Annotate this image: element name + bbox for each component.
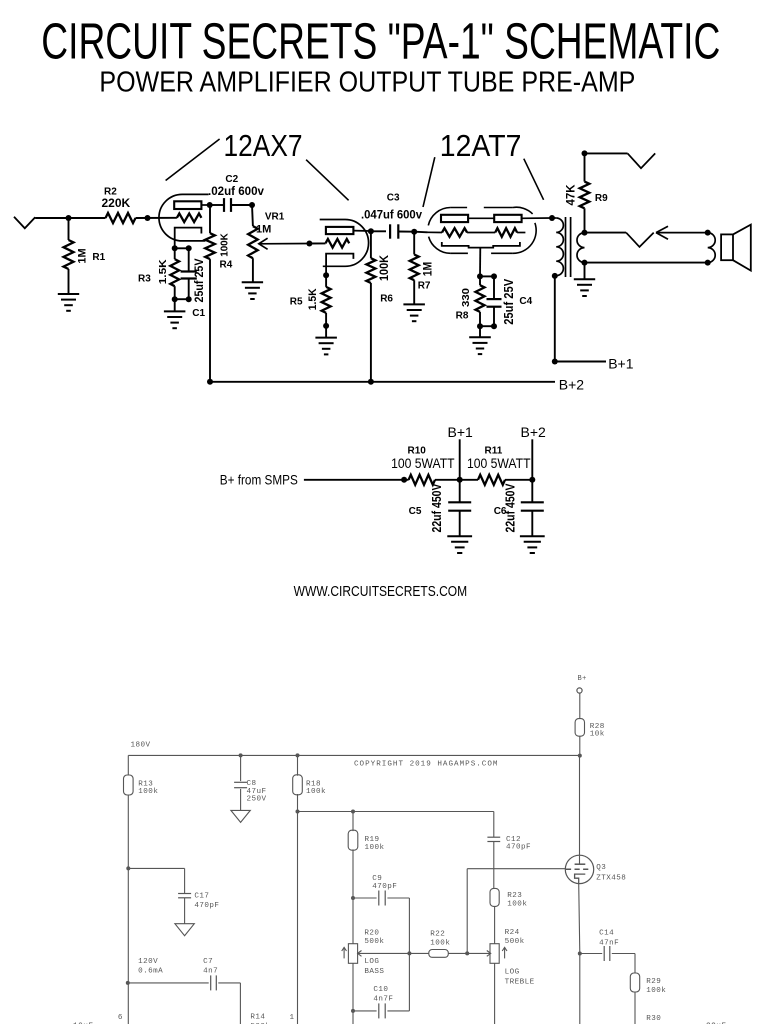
- ground for R8 C4: [469, 336, 491, 338]
- svg-text:LOG: LOG: [364, 958, 379, 966]
- output transformer core: [565, 217, 567, 277]
- svg-text:.02uf 600v: .02uf 600v: [208, 186, 265, 198]
- node cathode junction: [477, 273, 483, 279]
- jack contact speaker with arrow: [585, 232, 627, 234]
- node R19 rail2: [351, 810, 355, 814]
- svg-text:470pF: 470pF: [372, 883, 397, 891]
- svg-text:R9: R9: [595, 193, 608, 204]
- svg-text:Q3: Q3: [596, 864, 606, 872]
- ground for R3 C1: [164, 310, 186, 312]
- tube V1B cathode: [326, 254, 353, 276]
- resistor R10: [409, 475, 435, 485]
- jack contact top: [585, 152, 628, 154]
- capacitor C4: [493, 276, 495, 299]
- node secondary top: [582, 230, 588, 236]
- svg-text:1.5K: 1.5K: [157, 259, 169, 284]
- node grid V1A: [145, 215, 151, 221]
- wire primary bottom to B+1: [554, 276, 556, 362]
- svg-text:4n7: 4n7: [203, 967, 218, 975]
- node B+1 psu: [457, 477, 463, 483]
- node C7: [126, 981, 130, 985]
- arrow ground C8: [231, 810, 250, 822]
- svg-text:100k: 100k: [365, 844, 385, 852]
- svg-text:.047uf 600v: .047uf 600v: [361, 209, 423, 221]
- svg-text:6: 6: [118, 1014, 123, 1022]
- node cathode V1A top row: [172, 245, 178, 251]
- tube V1B grid zigzag: [326, 239, 350, 248]
- tube V1A cathode: [175, 228, 202, 249]
- svg-text:C5: C5: [409, 506, 422, 517]
- node R18 rail: [296, 753, 300, 757]
- node cathode bottom row: [172, 296, 178, 302]
- svg-text:R29: R29: [646, 978, 661, 986]
- svg-text:B+2: B+2: [521, 424, 547, 440]
- svg-text:250V: 250V: [247, 796, 267, 804]
- potentiometer R20 LOG BASS: [348, 944, 357, 964]
- tube V2 plate B: [494, 215, 521, 222]
- capacitor C3: [371, 230, 386, 232]
- resistor R6: [370, 231, 372, 258]
- ground for OT secondary: [574, 278, 595, 280]
- svg-text:1M: 1M: [77, 248, 89, 263]
- tube V1A envelope: [159, 194, 209, 241]
- B+2 terminal: [531, 439, 533, 480]
- svg-text:C2: C2: [225, 174, 238, 185]
- capacitor C17 branch: [128, 867, 184, 869]
- svg-text:1M: 1M: [256, 224, 271, 236]
- svg-text:120V: 120V: [138, 958, 158, 966]
- wire R22 to R24: [448, 952, 491, 954]
- pointer line 12AX7 left: [166, 139, 220, 181]
- pointer line 12AT7 left: [423, 157, 435, 207]
- svg-text:100 5WATT: 100 5WATT: [467, 456, 531, 471]
- svg-text:1.5K: 1.5K: [307, 288, 319, 310]
- svg-text:10k: 10k: [590, 731, 605, 739]
- svg-text:ZTX458: ZTX458: [596, 874, 626, 882]
- svg-text:COPYRIGHT 2019 HAGAMPS.COM: COPYRIGHT 2019 HAGAMPS.COM: [354, 760, 498, 768]
- speaker voice coil: [708, 233, 716, 263]
- svg-text:100k: 100k: [430, 939, 450, 947]
- resistor R4: [209, 205, 211, 233]
- wire base to Q3: [466, 869, 468, 954]
- svg-text:WWW.CIRCUITSECRETS.COM: WWW.CIRCUITSECRETS.COM: [294, 584, 468, 600]
- resistor R29: [630, 973, 639, 992]
- output transformer primary: [552, 217, 556, 219]
- wire SMPS feed: [304, 479, 409, 481]
- wire plate A to plate B: [468, 217, 494, 219]
- tube V2 plate A: [441, 215, 468, 222]
- resistor R3: [174, 248, 176, 259]
- node C9 junction: [351, 896, 355, 900]
- capacitor C12: [493, 812, 495, 838]
- B+1 rail: [552, 359, 558, 365]
- output transformer secondary: [577, 233, 585, 263]
- svg-text:25uf 25V: 25uf 25V: [502, 278, 516, 325]
- resistor R23: [490, 888, 499, 906]
- node OT primary bottom: [552, 273, 558, 279]
- B+2 rail: [210, 381, 555, 383]
- tube V1A plate: [174, 201, 201, 209]
- resistor R8: [479, 276, 481, 285]
- ground for R1: [58, 293, 79, 295]
- svg-text:100k: 100k: [306, 788, 326, 796]
- wire R20 wiper to R22: [358, 952, 429, 954]
- svg-text:C4: C4: [519, 296, 532, 307]
- resistor R18: [297, 755, 299, 775]
- tube V1B plate: [326, 227, 354, 234]
- tube V1A grid zigzag: [177, 214, 202, 223]
- svg-text:0.6mA: 0.6mA: [138, 967, 163, 975]
- pointer line 12AT7 right: [524, 159, 544, 200]
- svg-text:R1: R1: [92, 252, 105, 263]
- capacitor C2: [210, 204, 224, 206]
- node C8 rail: [239, 753, 243, 757]
- svg-text:470pF: 470pF: [194, 902, 219, 910]
- node B+2 psu: [529, 477, 535, 483]
- svg-text:C17: C17: [194, 893, 209, 901]
- svg-text:B+1: B+1: [608, 355, 634, 371]
- node plate V1A: [207, 202, 213, 208]
- svg-text:C7: C7: [203, 958, 213, 966]
- resistor R28: [575, 719, 584, 737]
- capacitor C8: [240, 755, 242, 781]
- svg-text:TREBLE: TREBLE: [505, 978, 535, 986]
- svg-text:500k: 500k: [364, 938, 384, 946]
- svg-text:330: 330: [460, 288, 472, 307]
- node plate V1B: [368, 228, 374, 234]
- potentiometer VR1: [251, 205, 254, 226]
- resistor R22: [429, 950, 449, 958]
- arrow ground C17: [175, 924, 194, 936]
- svg-text:B+2: B+2: [559, 376, 585, 392]
- capacitor C9 branch: [353, 897, 377, 899]
- wire C10 branch: [351, 1009, 355, 1013]
- tube V2 cathodes: [442, 242, 520, 248]
- capacitor C5: [459, 480, 461, 503]
- svg-text:4n7F: 4n7F: [373, 996, 393, 1004]
- B+ terminal: [577, 688, 582, 693]
- ground for R7: [403, 303, 425, 305]
- wire secondary bottom to speaker: [585, 262, 708, 264]
- node plate to OT primary: [549, 215, 555, 221]
- svg-text:CIRCUIT SECRETS "PA-1" SCHEMAT: CIRCUIT SECRETS "PA-1" SCHEMATIC: [41, 13, 720, 70]
- node C3 right: [411, 229, 417, 235]
- svg-text:C1: C1: [192, 308, 205, 319]
- svg-text:25uf 25V: 25uf 25V: [192, 259, 206, 303]
- svg-text:220K: 220K: [102, 196, 131, 210]
- ground for C6: [520, 535, 545, 537]
- speaker: [721, 234, 733, 260]
- svg-text:C8: C8: [247, 780, 257, 788]
- resistor R1: [68, 218, 70, 240]
- svg-text:12AT7: 12AT7: [440, 128, 522, 163]
- svg-text:100k: 100k: [138, 788, 158, 796]
- potentiometer R24 LOG TREBLE: [490, 944, 499, 964]
- node SMPS: [401, 477, 407, 483]
- input jack: [14, 217, 35, 229]
- node C2 right: [249, 202, 255, 208]
- node Q3 collector rail: [578, 754, 582, 758]
- svg-text:C14: C14: [599, 930, 614, 938]
- svg-text:C10: C10: [373, 986, 388, 994]
- svg-text:100k: 100k: [646, 987, 666, 995]
- svg-text:R4: R4: [220, 260, 233, 271]
- svg-text:100k: 100k: [507, 901, 527, 909]
- svg-text:C3: C3: [387, 192, 400, 203]
- svg-text:1: 1: [290, 1014, 295, 1022]
- node secondary bottom: [582, 260, 588, 266]
- svg-text:R23: R23: [507, 892, 522, 900]
- svg-text:B+: B+: [578, 675, 587, 683]
- resistor R13: [127, 755, 129, 775]
- node Q3 emitter: [578, 952, 582, 956]
- node wiper to grid V1B: [306, 241, 312, 247]
- svg-text:B+1: B+1: [448, 424, 474, 440]
- node R9 top: [582, 150, 588, 156]
- tube V2 grid zigzags: [428, 231, 443, 233]
- svg-text:VR1: VR1: [265, 211, 285, 222]
- svg-text:R11: R11: [485, 445, 503, 456]
- node base junction: [465, 951, 469, 955]
- resistor R9: [584, 153, 586, 181]
- wire R2 to tube grid: [136, 217, 177, 219]
- svg-text:1M: 1M: [423, 262, 435, 277]
- rail 180V: [128, 754, 580, 756]
- capacitor C14 branch: [580, 953, 602, 955]
- resistor R19: [352, 812, 354, 832]
- svg-text:100K: 100K: [379, 254, 391, 281]
- ground for VR1: [242, 281, 263, 283]
- svg-text:R14: R14: [250, 1014, 265, 1022]
- svg-text:B+ from SMPS: B+ from SMPS: [220, 471, 298, 487]
- VR1 wiper arrow: [259, 238, 268, 249]
- resistor R11: [460, 479, 478, 481]
- svg-text:LOG: LOG: [505, 968, 520, 976]
- capacitor C7 branch: [128, 982, 209, 984]
- wire input to R2: [35, 217, 105, 219]
- transistor Q3: [565, 855, 593, 883]
- resistor R5: [323, 272, 329, 278]
- svg-text:R30: R30: [646, 1015, 661, 1023]
- svg-text:R22: R22: [430, 931, 445, 939]
- svg-text:R7: R7: [418, 280, 431, 291]
- B+1 terminal: [459, 439, 461, 480]
- rail 2: [298, 811, 494, 813]
- svg-text:12AX7: 12AX7: [224, 128, 303, 163]
- tube V2 12AT7 envelope: [450, 207, 467, 209]
- svg-text:100K: 100K: [218, 233, 230, 257]
- svg-text:470pF: 470pF: [506, 844, 531, 852]
- svg-text:R24: R24: [505, 929, 520, 937]
- node input junction: [66, 215, 72, 221]
- svg-text:R20: R20: [364, 929, 379, 937]
- svg-text:R6: R6: [380, 293, 393, 304]
- svg-text:100 5WATT: 100 5WATT: [391, 456, 455, 471]
- pointer line 12AX7 right: [306, 160, 349, 201]
- ground for R5: [315, 337, 337, 339]
- ground for C5: [447, 535, 472, 537]
- capacitor C6: [531, 480, 533, 503]
- capacitor C1: [188, 248, 190, 271]
- svg-text:47K: 47K: [566, 184, 578, 206]
- svg-text:22uf 450V: 22uf 450V: [504, 483, 518, 533]
- svg-text:R8: R8: [456, 310, 469, 321]
- svg-text:180V: 180V: [131, 742, 151, 750]
- svg-text:47nF: 47nF: [599, 939, 619, 947]
- svg-text:47uF: 47uF: [247, 788, 267, 796]
- svg-text:BASS: BASS: [364, 968, 384, 976]
- svg-text:R3: R3: [138, 274, 151, 285]
- svg-text:R5: R5: [290, 296, 303, 307]
- svg-text:POWER AMPLIFIER OUTPUT TUBE PR: POWER AMPLIFIER OUTPUT TUBE PRE-AMP: [99, 67, 635, 99]
- tube V1B envelope: [320, 220, 369, 267]
- svg-text:22uf 450V: 22uf 450V: [430, 483, 444, 533]
- svg-text:500k: 500k: [505, 938, 525, 946]
- svg-text:R10: R10: [408, 445, 427, 456]
- node C17: [126, 866, 130, 870]
- wire secondary bottom to ground: [584, 263, 586, 279]
- wire plate B to transformer: [522, 217, 552, 219]
- node C9 C10 junction: [407, 951, 411, 955]
- resistor R7: [413, 232, 415, 255]
- resistor R2: [106, 213, 136, 223]
